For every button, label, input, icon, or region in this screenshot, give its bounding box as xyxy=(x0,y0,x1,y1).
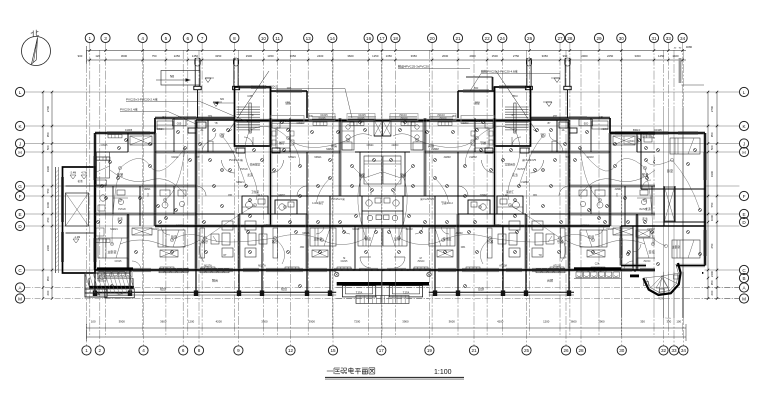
svg-text:M1021: M1021 xyxy=(647,228,655,231)
svg-text:C0924: C0924 xyxy=(367,145,374,147)
svg-text:C65: C65 xyxy=(177,122,182,125)
svg-text:C1815: C1815 xyxy=(417,261,424,263)
svg-text:M1021: M1021 xyxy=(110,228,118,231)
svg-text:1200: 1200 xyxy=(188,320,195,324)
svg-text:34: 34 xyxy=(680,36,686,41)
svg-text:17: 17 xyxy=(379,348,385,353)
svg-text:M0921: M0921 xyxy=(288,156,296,159)
svg-text:KD: KD xyxy=(309,115,313,118)
svg-text:G: G xyxy=(18,184,22,189)
doors on D wall xyxy=(161,226,170,235)
level marks xyxy=(554,78,560,83)
svg-text:M1227: M1227 xyxy=(606,229,614,231)
annotation texts top-left xyxy=(120,97,248,125)
bottom wall C xyxy=(95,269,383,271)
svg-text:C0915: C0915 xyxy=(101,145,108,147)
svg-text:990: 990 xyxy=(563,54,568,58)
svg-text:3900: 3900 xyxy=(402,320,409,324)
ceiling lamps + wiring xyxy=(393,126,655,245)
svg-text:34: 34 xyxy=(681,348,687,353)
svg-text:C0924: C0924 xyxy=(628,141,635,143)
svg-text:卫生间: 卫生间 xyxy=(251,190,259,194)
radiators under windows xyxy=(643,135,657,138)
north arrow xyxy=(22,30,51,66)
svg-text:10: 10 xyxy=(261,36,267,41)
svg-text:PVC20: PVC20 xyxy=(118,209,126,211)
svg-text:储藏: 储藏 xyxy=(474,101,480,105)
east octagonal balcony xyxy=(630,263,681,301)
svg-text:储藏: 储藏 xyxy=(285,101,291,105)
svg-text:2250: 2250 xyxy=(607,54,614,58)
svg-text:C0924: C0924 xyxy=(461,123,468,125)
washing machine xyxy=(98,273,106,281)
svg-text:3600: 3600 xyxy=(160,320,167,324)
svg-text:950: 950 xyxy=(710,280,714,285)
svg-text:TL2A: TL2A xyxy=(92,292,99,296)
svg-text:950: 950 xyxy=(46,276,50,281)
building left half xyxy=(61,58,382,296)
svg-text:暗敷PVC25-3-PVC20 4.8米: 暗敷PVC25-3-PVC20 4.8米 xyxy=(481,69,518,74)
svg-text:PVC20: PVC20 xyxy=(517,169,525,171)
svg-text:B: B xyxy=(742,276,745,281)
svg-text:M1021: M1021 xyxy=(176,225,184,228)
outer walls xyxy=(669,133,671,270)
east flat walls xyxy=(610,129,706,270)
svg-text:550: 550 xyxy=(46,188,50,193)
svg-text:卫: 卫 xyxy=(615,194,618,197)
svg-text:JXD: JXD xyxy=(228,195,233,197)
level marks xyxy=(205,78,211,83)
horizontal grid lines xyxy=(25,92,740,299)
svg-text:650: 650 xyxy=(710,243,714,248)
N6 arrow small xyxy=(214,97,234,105)
svg-text:阳台: 阳台 xyxy=(281,286,287,291)
bottom wall C xyxy=(383,269,671,271)
svg-text:AL2: AL2 xyxy=(258,194,263,197)
svg-text:26: 26 xyxy=(527,36,533,41)
svg-text:PVC20: PVC20 xyxy=(240,169,248,171)
canopy column east xyxy=(233,58,235,87)
svg-text:YB: YB xyxy=(547,123,551,125)
svg-text:4.7M: 4.7M xyxy=(81,172,87,175)
svg-text:C24: C24 xyxy=(595,263,600,266)
svg-text:3300: 3300 xyxy=(634,54,641,58)
svg-text:PVC25+3-PVC20-2.4米: PVC25+3-PVC20-2.4米 xyxy=(126,97,158,102)
svg-text:2900: 2900 xyxy=(246,54,253,58)
svg-text:M: M xyxy=(343,257,345,260)
svg-text:XD: XD xyxy=(196,157,200,159)
svg-text:E: E xyxy=(742,212,745,217)
svg-text:8: 8 xyxy=(233,36,236,41)
top dimension lines xyxy=(87,46,687,64)
svg-text:6: 6 xyxy=(182,348,185,353)
E-D walls xyxy=(196,213,235,215)
svg-text:M0821: M0821 xyxy=(614,189,622,191)
svg-text:M1021: M1021 xyxy=(352,229,360,231)
east window band (recessed) xyxy=(574,263,621,279)
washing machine xyxy=(659,273,667,281)
svg-text:主卧室: 主卧室 xyxy=(672,245,681,249)
svg-text:PVC25+3-PVC20-2: PVC25+3-PVC20-2 xyxy=(251,85,277,89)
balcony dividers xyxy=(95,270,382,294)
svg-text:1.0.1客厅: 1.0.1客厅 xyxy=(441,201,453,205)
svg-text:C1905: C1905 xyxy=(632,129,640,132)
svg-text:餐厅: 餐厅 xyxy=(279,140,285,145)
svg-text:21: 21 xyxy=(471,348,477,353)
svg-text:1450: 1450 xyxy=(192,54,199,58)
svg-text:M0921: M0921 xyxy=(521,181,529,184)
svg-text:30: 30 xyxy=(619,36,625,41)
svg-text:M0921: M0921 xyxy=(264,225,272,227)
svg-text:3050: 3050 xyxy=(542,54,549,58)
center porch regrid xyxy=(336,271,429,302)
svg-text:4: 4 xyxy=(141,36,144,41)
svg-text:C1905: C1905 xyxy=(654,129,662,132)
svg-text:1: 1 xyxy=(89,36,92,41)
kitchen xyxy=(411,122,423,150)
vertical grid lines xyxy=(87,43,684,346)
svg-text:C0924: C0924 xyxy=(391,145,398,147)
svg-text:1000: 1000 xyxy=(710,214,714,221)
svg-text:26: 26 xyxy=(563,348,569,353)
canopy column west xyxy=(569,58,571,87)
closet row top xyxy=(130,136,152,145)
svg-text:1250: 1250 xyxy=(372,54,379,58)
ceiling lamps + wiring xyxy=(110,126,372,245)
canopy column east xyxy=(530,58,532,87)
center porch erase xyxy=(336,271,429,302)
svg-text:JXD: JXD xyxy=(460,246,465,249)
svg-text:卫生间: 卫生间 xyxy=(506,190,514,194)
svg-text:600: 600 xyxy=(46,290,50,295)
svg-text:900: 900 xyxy=(78,54,83,58)
svg-text:敷设4PVC25-3xPVC20: 敷设4PVC25-3xPVC20 xyxy=(398,64,429,69)
svg-text:3900: 3900 xyxy=(598,320,605,324)
svg-text:3: 3 xyxy=(104,36,107,41)
svg-text:3650: 3650 xyxy=(411,54,418,58)
svg-text:14: 14 xyxy=(330,36,336,41)
svg-text:2600: 2600 xyxy=(442,54,449,58)
svg-text:C1815: C1815 xyxy=(341,261,348,263)
stair treads xyxy=(505,107,529,130)
svg-text:PVC25-2.4米: PVC25-2.4米 xyxy=(229,158,244,162)
svg-text:1:100: 1:100 xyxy=(434,369,452,376)
svg-text:3600: 3600 xyxy=(347,54,354,58)
svg-text:M: M xyxy=(18,296,22,301)
svg-text:500: 500 xyxy=(46,145,50,150)
bath cluster mid xyxy=(242,196,268,214)
hall + bath fixtures xyxy=(100,195,106,201)
svg-text:F: F xyxy=(743,194,746,199)
svg-text:阳台: 阳台 xyxy=(478,286,484,291)
svg-text:1350: 1350 xyxy=(386,54,393,58)
main top wall east part xyxy=(235,120,383,122)
right stair west canopy stub xyxy=(466,77,493,91)
extra wiring curves xyxy=(110,130,372,264)
svg-text:主卧室: 主卧室 xyxy=(107,249,116,254)
interior walls xyxy=(127,133,129,152)
svg-text:31: 31 xyxy=(651,36,657,41)
svg-text:M1021: M1021 xyxy=(405,229,413,231)
svg-text:24: 24 xyxy=(500,36,506,41)
svg-text:PVC20-2.4米: PVC20-2.4米 xyxy=(120,107,138,112)
svg-text:TC: TC xyxy=(511,115,514,117)
svg-text:32: 32 xyxy=(661,348,667,353)
bottom dimension lines xyxy=(87,324,687,341)
hall + bath fixtures xyxy=(659,195,665,201)
svg-text:JXD: JXD xyxy=(532,195,537,197)
outer walls xyxy=(94,133,96,270)
right row bubbles xyxy=(739,87,748,303)
svg-text:18: 18 xyxy=(393,36,399,41)
svg-text:4: 4 xyxy=(142,348,145,353)
svg-text:C1515: C1515 xyxy=(115,261,122,263)
svg-text:M1021: M1021 xyxy=(171,157,179,159)
svg-text:950: 950 xyxy=(46,132,50,137)
svg-text:C65: C65 xyxy=(285,119,290,123)
east end regrid xyxy=(574,108,739,318)
east flat fixtures xyxy=(624,136,702,266)
far left retaining double line xyxy=(56,167,59,273)
big door arcs near halls xyxy=(222,160,235,173)
distribution boxes xyxy=(569,128,577,133)
svg-text:15: 15 xyxy=(330,348,336,353)
svg-text:C0924: C0924 xyxy=(156,128,164,131)
interior walls xyxy=(636,133,638,152)
svg-text:13: 13 xyxy=(306,36,312,41)
window tag boxes above top wall xyxy=(271,116,304,124)
svg-text:M1227: M1227 xyxy=(151,229,159,231)
svg-text:1200: 1200 xyxy=(543,320,550,324)
center shaft on axis xyxy=(374,120,383,136)
svg-text:28: 28 xyxy=(567,36,573,41)
svg-text:2400: 2400 xyxy=(710,270,714,277)
center bath cluster (axis side) xyxy=(361,196,363,226)
svg-text:C1615: C1615 xyxy=(318,117,326,120)
svg-text:2: 2 xyxy=(99,348,102,353)
svg-text:2400: 2400 xyxy=(317,54,324,58)
svg-text:3600: 3600 xyxy=(449,320,456,324)
svg-text:L: L xyxy=(743,90,746,95)
svg-text:花池: 花池 xyxy=(77,179,83,183)
svg-text:TJ7A: TJ7A xyxy=(356,291,363,295)
svg-text:合用前室: 合用前室 xyxy=(504,163,515,167)
E-D walls xyxy=(531,213,570,215)
stair treads xyxy=(237,107,261,130)
svg-text:餐厅: 餐厅 xyxy=(480,140,486,145)
svg-text:卧室: 卧室 xyxy=(642,172,648,177)
balcony rails xyxy=(95,291,383,293)
svg-text:33: 33 xyxy=(671,348,677,353)
balcony dividers xyxy=(383,270,670,294)
svg-text:C1615: C1615 xyxy=(357,117,365,120)
left end window band + entrance xyxy=(89,267,134,297)
electrical symbols xyxy=(388,121,669,288)
svg-text:J: J xyxy=(743,141,745,146)
svg-text:AL2: AL2 xyxy=(502,194,507,197)
svg-text:阳台: 阳台 xyxy=(212,278,218,283)
svg-text:JXD: JXD xyxy=(300,246,305,249)
svg-text:C65: C65 xyxy=(473,87,478,90)
svg-text:4680: 4680 xyxy=(686,45,693,49)
svg-text:25: 25 xyxy=(524,348,530,353)
svg-text:11: 11 xyxy=(275,36,280,41)
closet row top xyxy=(613,136,635,145)
svg-text:阳台: 阳台 xyxy=(547,278,553,283)
svg-text:1: 1 xyxy=(85,348,88,353)
svg-text:5: 5 xyxy=(165,36,168,41)
svg-text:YP1: YP1 xyxy=(208,115,213,118)
left row bubbles xyxy=(15,87,24,303)
svg-text:8: 8 xyxy=(198,348,201,353)
svg-text:9: 9 xyxy=(237,348,240,353)
svg-text:M: M xyxy=(742,296,746,301)
svg-text:M0921: M0921 xyxy=(443,157,451,159)
svg-text:XD: XD xyxy=(565,157,569,159)
bath cluster mid xyxy=(497,196,523,214)
svg-text:C1905: C1905 xyxy=(125,129,133,132)
title (vector CJK: 一层弱电平面图) xyxy=(325,367,464,379)
svg-text:C0924: C0924 xyxy=(297,123,304,125)
svg-text:PVC25-2.4米: PVC25-2.4米 xyxy=(521,158,536,162)
svg-text:1900: 1900 xyxy=(46,165,50,172)
left bottom terrace with hatch xyxy=(85,273,135,297)
svg-text:21: 21 xyxy=(455,36,461,41)
svg-text:C1515: C1515 xyxy=(643,261,650,263)
svg-text:N6: N6 xyxy=(220,97,224,101)
svg-text:350: 350 xyxy=(640,320,645,324)
svg-text:2900: 2900 xyxy=(469,54,476,58)
svg-text:C65: C65 xyxy=(475,119,480,123)
right edge drain stub xyxy=(674,48,704,86)
main top wall east part xyxy=(383,120,531,122)
svg-text:600: 600 xyxy=(710,290,714,295)
svg-text:1450: 1450 xyxy=(267,54,274,58)
svg-text:12: 12 xyxy=(288,348,294,353)
svg-text:3900: 3900 xyxy=(309,320,316,324)
extra wiring curves xyxy=(393,130,655,264)
annotation top-right texts xyxy=(398,64,560,92)
svg-text:C1615: C1615 xyxy=(400,117,408,120)
svg-text:M: M xyxy=(420,257,422,260)
svg-text:M0821: M0821 xyxy=(278,195,286,197)
svg-text:阳台: 阳台 xyxy=(160,286,166,291)
svg-text:3250: 3250 xyxy=(215,54,222,58)
svg-text:100: 100 xyxy=(676,320,681,324)
window tag boxes above top wall xyxy=(461,116,494,124)
east lower regrid xyxy=(581,272,683,318)
kitchen xyxy=(342,122,354,150)
sliding door panels xyxy=(159,269,229,273)
svg-text:1000: 1000 xyxy=(46,201,50,208)
svg-text:-2.4M: -2.4M xyxy=(70,172,76,175)
svg-text:卧室: 卧室 xyxy=(117,172,123,177)
right stair west canopy stub xyxy=(466,77,493,91)
svg-text:YB: YB xyxy=(214,123,218,125)
svg-text:J: J xyxy=(19,141,21,146)
svg-text:M0821: M0821 xyxy=(431,148,439,151)
N8 arrow box xyxy=(156,71,200,86)
svg-text:4200: 4200 xyxy=(497,320,504,324)
svg-text:M0921: M0921 xyxy=(469,156,477,159)
svg-text:300: 300 xyxy=(666,320,671,324)
svg-text:3900: 3900 xyxy=(119,320,126,324)
svg-text:H: H xyxy=(18,150,21,155)
canopy column west xyxy=(194,58,196,87)
svg-text:M0921: M0921 xyxy=(493,225,501,227)
center porch regrid xyxy=(336,271,429,302)
svg-text:500: 500 xyxy=(710,145,714,150)
svg-text:16: 16 xyxy=(366,36,372,41)
svg-text:27: 27 xyxy=(557,36,563,41)
radiators under windows xyxy=(108,135,122,138)
svg-text:19: 19 xyxy=(427,348,433,353)
center entrance steps xyxy=(356,296,409,304)
svg-text:28: 28 xyxy=(578,348,584,353)
electrical symbols xyxy=(97,121,378,288)
svg-text:3600: 3600 xyxy=(570,320,577,324)
svg-text:L: L xyxy=(19,90,22,95)
east end erase xyxy=(574,272,702,318)
left bottom terrace with hatch xyxy=(85,273,135,297)
balcony rails xyxy=(383,291,671,293)
svg-text:C65: C65 xyxy=(247,94,253,98)
party walls lower xyxy=(525,214,527,270)
svg-text:卧室: 卧室 xyxy=(667,168,673,173)
svg-text:2700: 2700 xyxy=(46,105,50,112)
svg-text:17: 17 xyxy=(379,36,385,41)
svg-text:550: 550 xyxy=(710,202,714,207)
svg-text:TJ76: TJ76 xyxy=(658,298,664,301)
svg-text:C0924: C0924 xyxy=(601,128,609,131)
svg-text:30: 30 xyxy=(619,348,625,353)
svg-text:2700: 2700 xyxy=(710,105,714,112)
svg-text:M1021: M1021 xyxy=(581,225,589,228)
svg-text:走道: 走道 xyxy=(645,207,651,211)
doors on D wall xyxy=(595,226,604,235)
svg-text:YP1: YP1 xyxy=(552,115,557,118)
svg-text:3600: 3600 xyxy=(121,54,128,58)
svg-text:22: 22 xyxy=(485,36,491,41)
svg-text:M0821: M0821 xyxy=(479,195,487,197)
svg-text:100: 100 xyxy=(91,320,96,324)
svg-text:7200: 7200 xyxy=(354,320,361,324)
svg-text:650: 650 xyxy=(46,217,50,222)
center bath cluster (axis side) xyxy=(402,196,404,226)
center shaft on axis xyxy=(383,120,392,136)
svg-text:950: 950 xyxy=(710,132,714,137)
svg-text:1900: 1900 xyxy=(710,170,714,177)
svg-text:E: E xyxy=(18,212,21,217)
svg-text:2900: 2900 xyxy=(581,54,588,58)
top grid bubbles xyxy=(85,33,687,42)
svg-text:C65: C65 xyxy=(583,122,588,125)
svg-text:1.0.1客厅: 1.0.1客厅 xyxy=(312,201,324,205)
svg-text:M127A: M127A xyxy=(258,265,266,268)
svg-text:M1021: M1021 xyxy=(586,157,594,159)
svg-text:TC: TC xyxy=(250,115,253,117)
svg-text:2750: 2750 xyxy=(513,54,520,58)
annotation top-center-left xyxy=(251,85,352,119)
svg-text:KD: KD xyxy=(452,115,456,118)
svg-text:C65: C65 xyxy=(512,94,518,98)
right dimension lines xyxy=(708,92,717,299)
svg-text:29: 29 xyxy=(596,36,602,41)
svg-text:120: 120 xyxy=(95,54,100,58)
svg-text:M0921: M0921 xyxy=(236,181,244,184)
building right half (mirrored) xyxy=(383,58,704,296)
mid-zone interior xyxy=(494,118,496,226)
